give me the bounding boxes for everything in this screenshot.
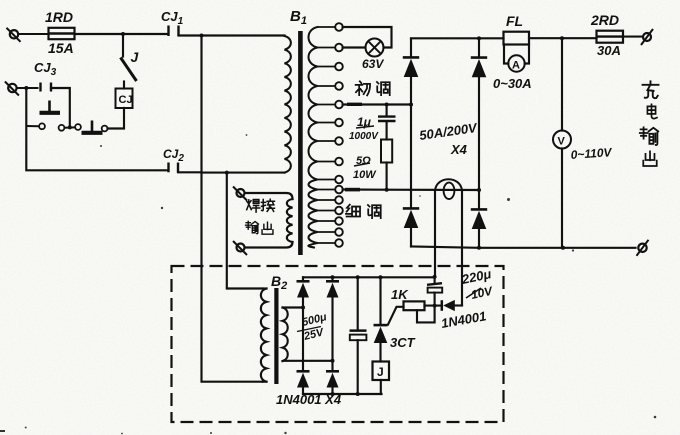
transformer B2 primary xyxy=(261,289,267,382)
wire CJ1 to primary top xyxy=(179,34,285,38)
label 220u 10V xyxy=(460,266,495,302)
svg-text:J: J xyxy=(131,49,140,65)
label fine-adjust xyxy=(346,205,381,218)
label 50A/200V X4 xyxy=(418,120,479,157)
paper specks xyxy=(0,134,656,434)
label 15A xyxy=(48,40,74,56)
wire tap1 to lamp xyxy=(343,27,392,48)
capacitor 220u 10V xyxy=(427,277,442,306)
label CJ1 xyxy=(161,9,184,27)
wire CJ coil to start button xyxy=(108,108,125,129)
resistor 1K xyxy=(404,301,425,310)
rectifier diode D1 top xyxy=(403,39,419,78)
wire D1 column xyxy=(410,77,412,208)
wire tap5 to rectifier xyxy=(343,103,413,107)
current transformer loop xyxy=(435,179,462,199)
svg-text:CJ: CJ xyxy=(119,94,133,106)
bridge diode D5 xyxy=(297,277,310,297)
svg-text:0~110V: 0~110V xyxy=(570,145,613,162)
label 1RD xyxy=(45,9,73,25)
dashed enclosure xyxy=(172,266,504,422)
transformer B1 secondary winding xyxy=(308,27,335,248)
fuse 2RD xyxy=(597,31,624,43)
svg-text:3CT: 3CT xyxy=(390,335,416,350)
wire DC- bottom rail xyxy=(411,246,636,250)
label welding-output xyxy=(246,199,275,234)
transformer B2 secondary xyxy=(283,308,288,362)
transformer B2 core xyxy=(274,288,278,384)
wire B2 sec bottom to bridge xyxy=(283,359,335,363)
wire node down to B2 primary bottom xyxy=(202,36,263,382)
label J xyxy=(131,49,140,65)
rectifier diode D4 bottom xyxy=(471,209,487,248)
wire AC2 rail xyxy=(343,188,481,192)
wire 1K to diode node xyxy=(425,304,441,308)
B1 secondary tap points xyxy=(335,23,343,247)
resistor 5ohm 10W xyxy=(381,140,392,190)
wire B2 sec top to bridge xyxy=(283,306,306,310)
label coarse-adjust xyxy=(356,81,390,95)
capacitor 500u 25V xyxy=(350,277,367,394)
wire relay top rail xyxy=(303,275,437,279)
gate wire xyxy=(388,307,404,325)
label 500u 25V xyxy=(297,311,328,343)
terminal output negative xyxy=(637,240,649,256)
switch J xyxy=(121,34,137,89)
svg-text:63V: 63V xyxy=(362,57,384,71)
wire D3 column xyxy=(478,77,480,209)
wire relay bottom rail xyxy=(303,392,382,396)
svg-text:X4: X4 xyxy=(450,142,468,157)
label 1N4001 xyxy=(440,308,487,331)
lamp 6.3V xyxy=(366,39,384,57)
svg-text:10W: 10W xyxy=(353,169,377,181)
transformer B1 primary winding xyxy=(285,36,291,173)
relay coil J xyxy=(373,362,390,395)
label 5ohm xyxy=(353,155,377,181)
wire CT left down to C220 xyxy=(434,191,436,277)
label CJ2 xyxy=(163,147,184,164)
svg-text:V: V xyxy=(558,136,566,148)
svg-text:1K: 1K xyxy=(391,287,409,302)
svg-text:1000V: 1000V xyxy=(349,131,379,142)
label B1 xyxy=(290,8,307,27)
label 1N4001 X4 xyxy=(276,392,342,407)
wire bridge right column xyxy=(331,298,333,372)
svg-text:1RD: 1RD xyxy=(45,9,73,25)
terminal output positive xyxy=(623,29,653,45)
label 0~110V xyxy=(570,145,613,162)
label 6.3V xyxy=(362,57,384,71)
rectifier diode D3 top xyxy=(471,39,487,78)
terminal welding top xyxy=(233,187,247,201)
voltmeter V 0-110V xyxy=(553,38,571,248)
wire CJ3 to buttons xyxy=(51,88,72,129)
wire L2 down-left side xyxy=(26,88,166,170)
wire DC+ top rail xyxy=(411,36,564,40)
svg-text:A: A xyxy=(512,60,520,72)
rectifier diode D2 bottom xyxy=(403,208,419,246)
capacitor 1u 1000V xyxy=(378,105,396,140)
terminal welding bottom xyxy=(233,241,247,255)
terminal input L2 xyxy=(5,82,39,96)
bridge diode D8 xyxy=(326,371,339,394)
ammeter A 0-30A xyxy=(504,45,529,72)
wire to B2 primary top xyxy=(227,173,263,289)
wire lamp to tap2 xyxy=(343,46,366,48)
thyristor 3CT xyxy=(374,277,388,361)
transformer B1 core xyxy=(298,31,303,255)
svg-text:0~30A: 0~30A xyxy=(493,76,532,91)
wire primary bottom xyxy=(202,171,285,175)
svg-text:FL: FL xyxy=(506,13,523,29)
label 0~30A xyxy=(493,76,532,91)
label 30A xyxy=(597,43,621,58)
wire feedback stub xyxy=(417,306,435,323)
svg-text:30A: 30A xyxy=(597,43,621,58)
bridge diode D7 xyxy=(326,277,339,297)
start button NO contacts xyxy=(75,121,107,133)
bridge diode D6 xyxy=(297,371,310,394)
contact CJ2 xyxy=(169,163,179,173)
label charging-output xyxy=(640,81,659,166)
label 3CT xyxy=(390,335,416,350)
svg-text:J: J xyxy=(377,365,384,379)
fuse 1RD xyxy=(49,28,75,39)
label FL xyxy=(506,13,523,29)
wire fuse to CJ1 xyxy=(75,32,167,36)
diode 1N4001 xyxy=(442,300,462,311)
wire bridge left column xyxy=(302,298,304,372)
relay coil CJ xyxy=(116,89,133,109)
label 1u xyxy=(349,115,379,142)
svg-text:15A: 15A xyxy=(48,40,74,56)
wire FL to 2RD xyxy=(529,37,597,39)
B1 welding winding xyxy=(245,193,293,248)
shunt FL xyxy=(504,32,530,45)
wire CT right down to diode node xyxy=(461,191,463,306)
terminal input L1 xyxy=(7,28,49,42)
label B2 xyxy=(271,273,287,292)
wire CJ2 to node xyxy=(178,171,202,173)
svg-text:2RD: 2RD xyxy=(590,12,619,28)
label 2RD xyxy=(590,12,619,28)
contact CJ1 xyxy=(169,26,179,37)
contact CJ3 xyxy=(41,83,52,92)
label CJ3 xyxy=(34,60,57,78)
label 1K xyxy=(391,287,409,302)
stop button NC contacts xyxy=(26,101,75,131)
